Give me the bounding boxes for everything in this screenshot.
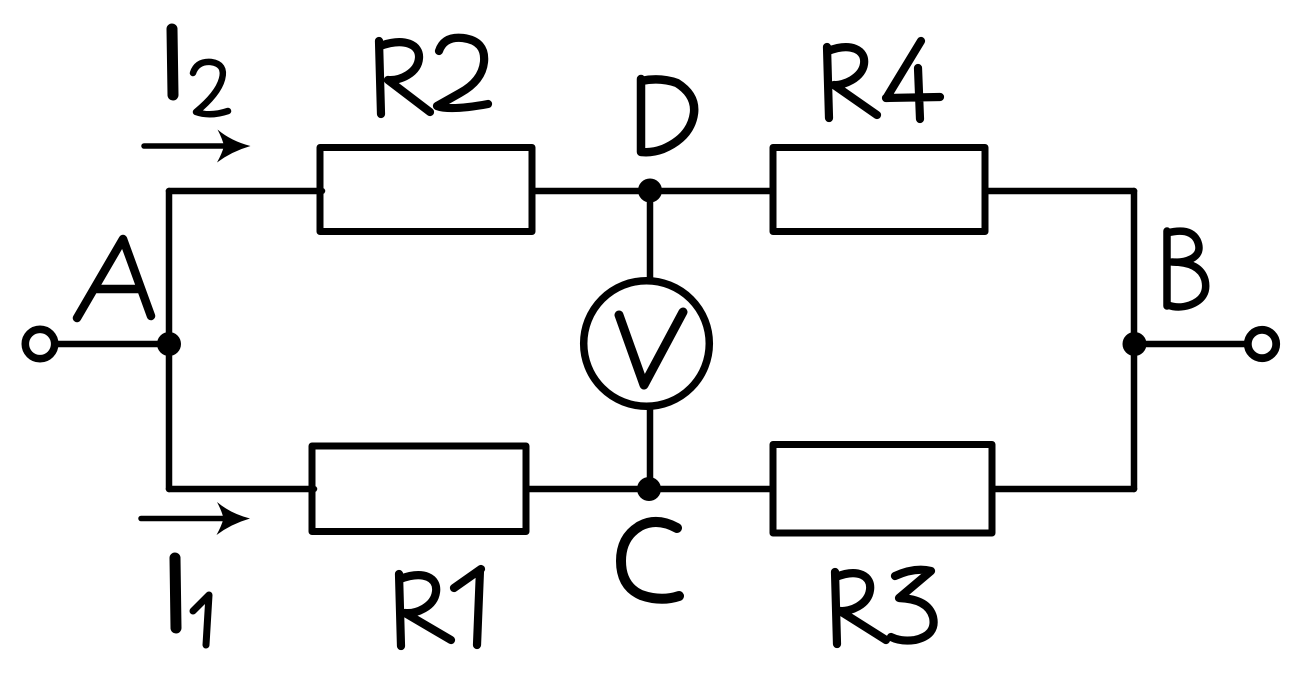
wire: R3 to bottom-right corner xyxy=(992,486,1134,493)
voltmeter U1 circle xyxy=(584,281,710,407)
wire: node D down to voltmeter xyxy=(647,191,654,283)
label B xyxy=(1167,231,1206,307)
resistor R4 xyxy=(773,148,985,232)
voltmeter letter V xyxy=(619,312,683,385)
terminal B (open circle) xyxy=(1248,330,1276,358)
label I1 xyxy=(175,558,209,645)
resistor R3 xyxy=(773,445,992,534)
label R1 xyxy=(399,569,481,646)
label D xyxy=(641,79,694,152)
label R3 xyxy=(835,570,934,644)
wire: node B to right terminal xyxy=(1134,341,1248,348)
node B (junction dot) xyxy=(1123,332,1147,356)
terminal A (open circle) xyxy=(25,329,54,358)
wire: right vertical branch xyxy=(1131,191,1138,489)
resistor R1 xyxy=(312,446,526,532)
wire: top-left horizontal to R2 xyxy=(169,188,322,195)
label R4 xyxy=(827,41,940,119)
current arrow I1 xyxy=(141,502,250,535)
current arrow I2 xyxy=(144,130,251,163)
label C xyxy=(621,522,679,599)
wire: bottom-left horizontal to R1 xyxy=(169,486,314,493)
label R2 xyxy=(379,38,488,114)
node D (junction dot) xyxy=(638,179,662,203)
wire: R2 to node D to R4 xyxy=(532,188,773,195)
node C (junction dot) xyxy=(637,477,661,501)
wire: left terminal to node A xyxy=(52,341,169,348)
node A (junction dot) xyxy=(157,332,181,356)
wire: R1 to node C to R3 xyxy=(526,486,773,493)
wire: voltmeter down to node C xyxy=(647,405,654,489)
wire: R4 to top-right corner xyxy=(985,188,1134,195)
label I2 xyxy=(172,29,228,114)
resistor R2 xyxy=(320,148,532,232)
wire: left vertical branch A up/down xyxy=(166,191,173,489)
label A xyxy=(77,239,151,318)
